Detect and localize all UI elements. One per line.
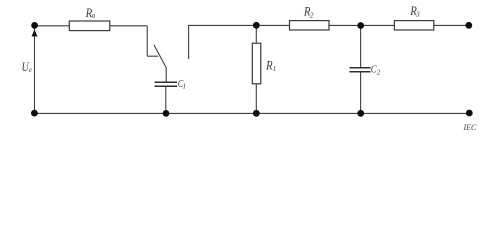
svg-text:1: 1: [183, 82, 187, 90]
svg-text:e: e: [29, 66, 32, 74]
svg-text:2: 2: [377, 68, 381, 76]
svg-text:2: 2: [310, 10, 314, 19]
svg-text:1: 1: [273, 65, 277, 73]
svg-text:IEC: IEC: [463, 123, 478, 132]
svg-text:R: R: [265, 59, 273, 73]
svg-text:a: a: [92, 12, 96, 20]
svg-text:3: 3: [415, 10, 420, 19]
